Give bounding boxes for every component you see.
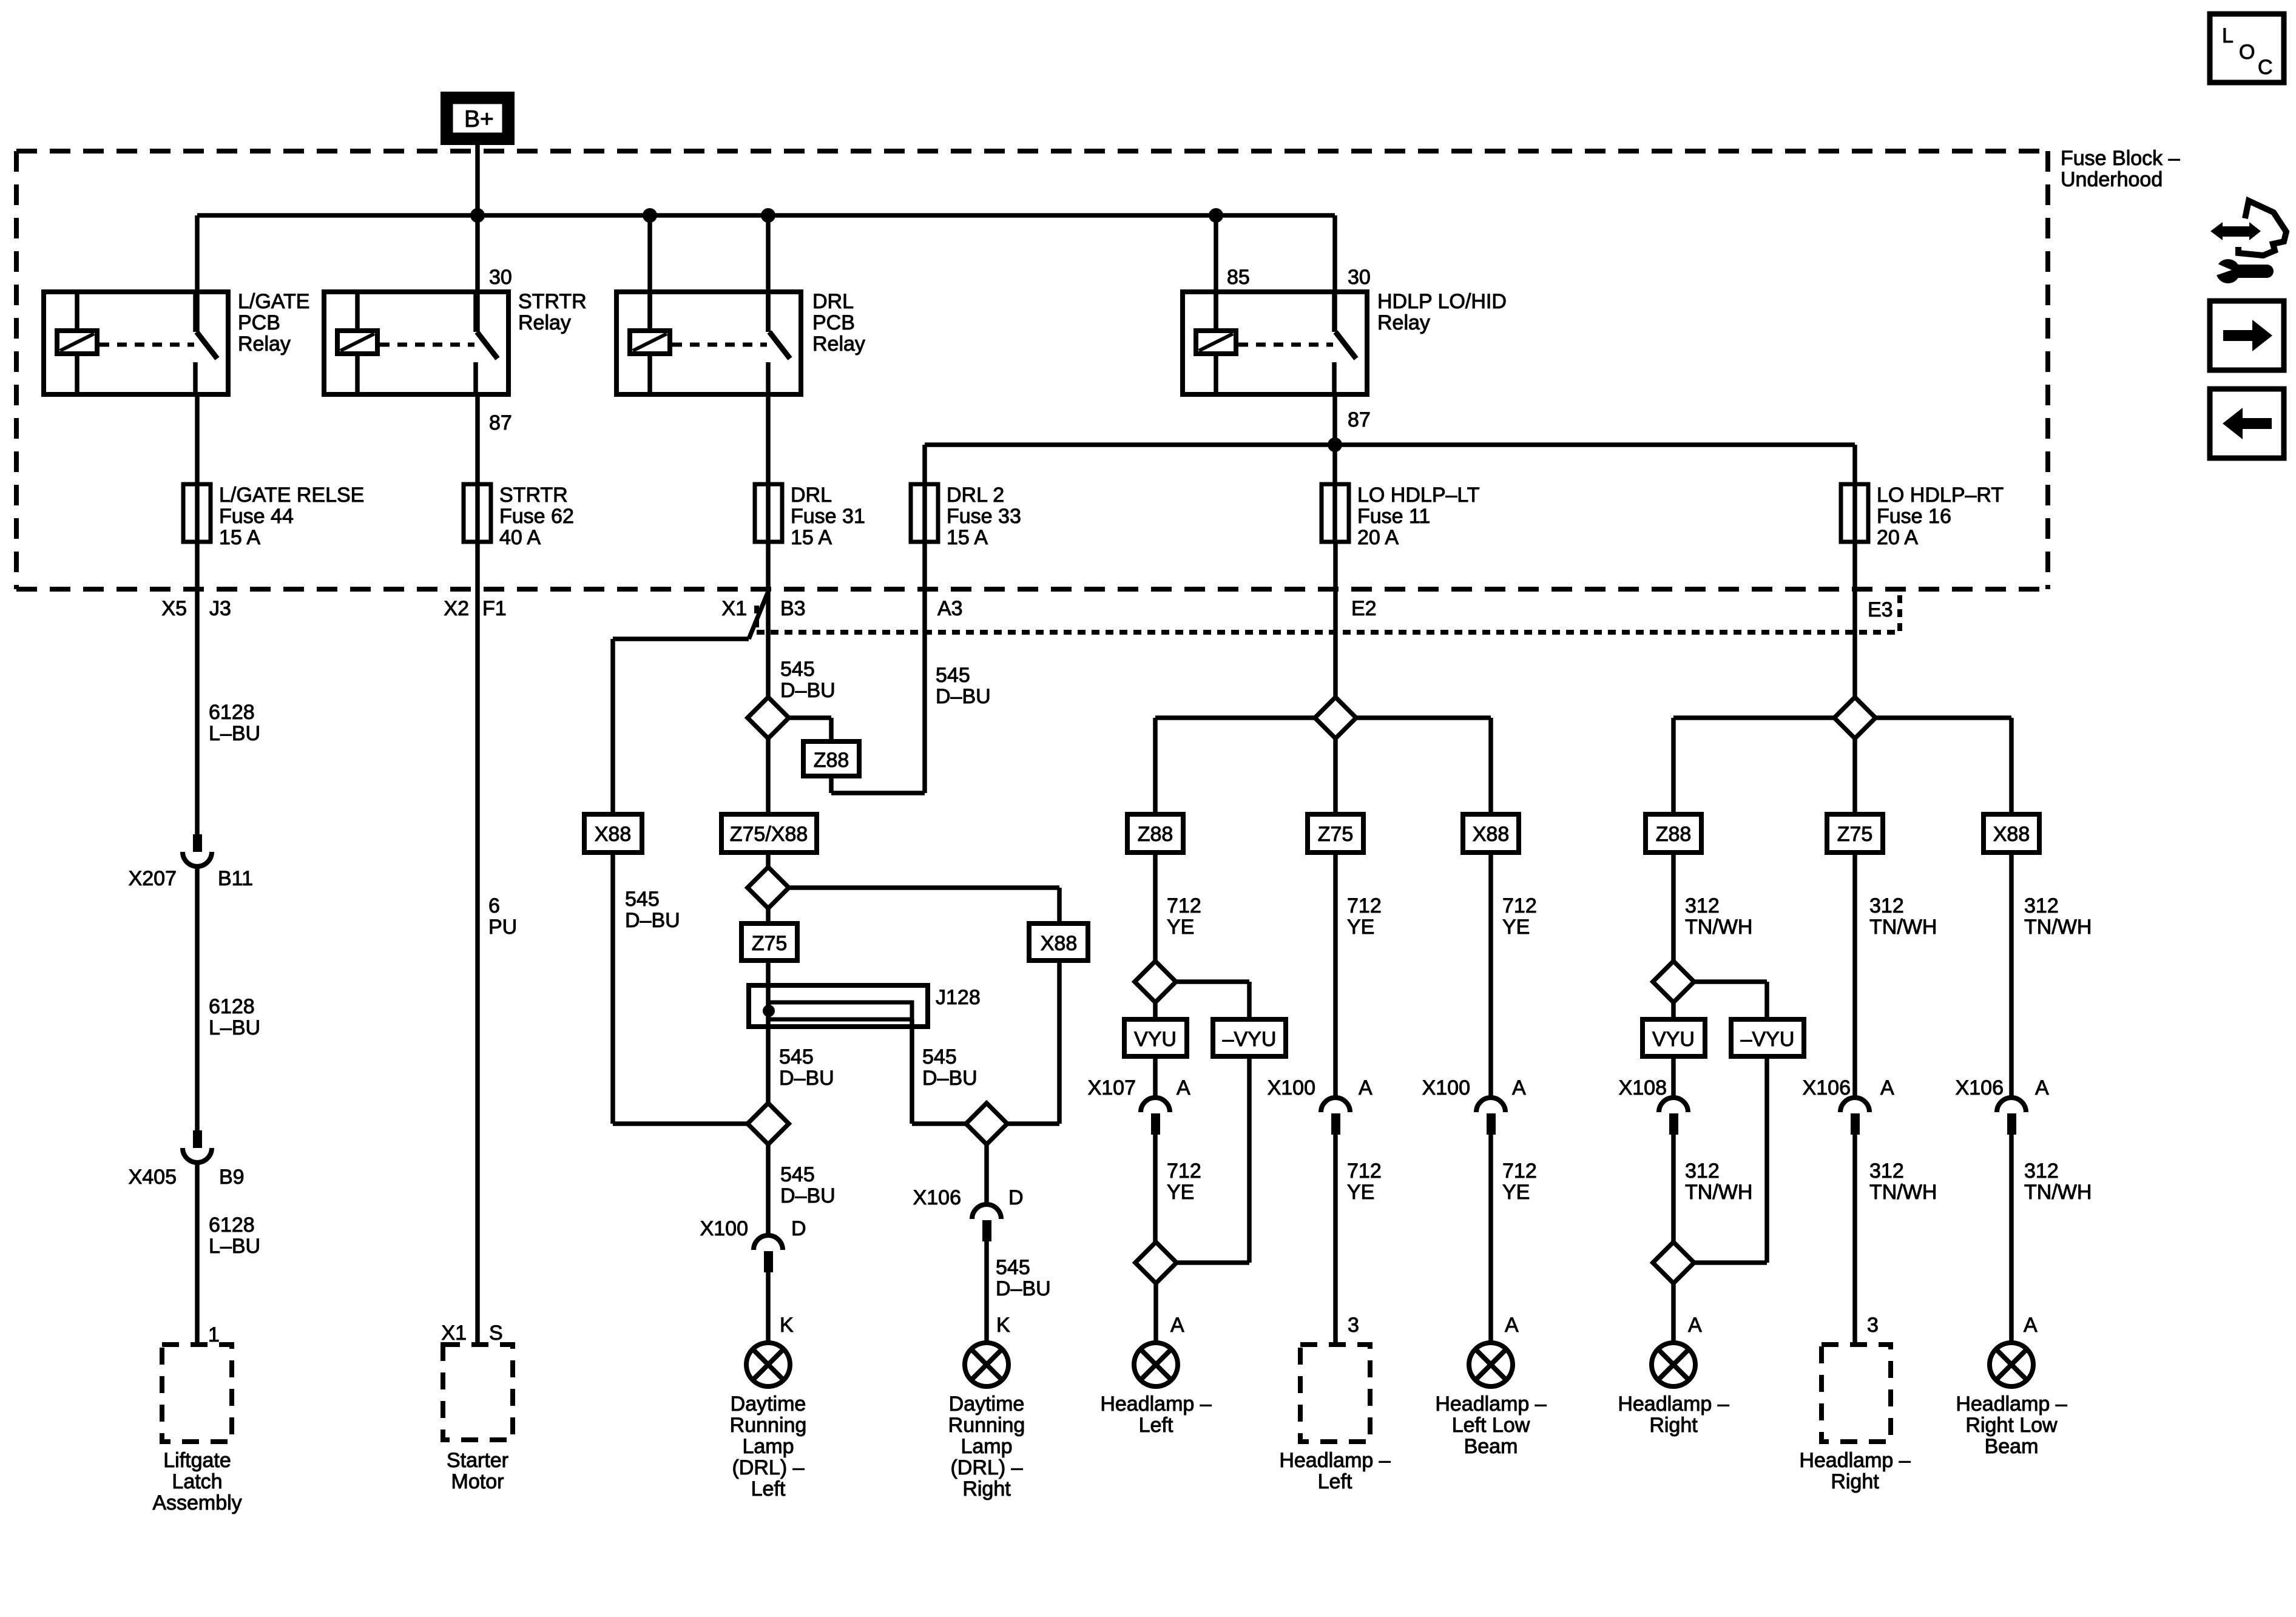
svg-text:X106: X106: [913, 1186, 961, 1209]
wire J128 bar to right DRL leg: [912, 1019, 966, 1124]
svg-text:Assembly: Assembly: [152, 1491, 241, 1514]
relay DRL PCB Relay: [616, 292, 801, 394]
wire diamond E2 to Z88 leg: [1155, 718, 1315, 814]
connector label E3: [1868, 598, 1893, 621]
node splice diamond B3: [748, 697, 789, 738]
svg-text:Headlamp –: Headlamp –: [1799, 1449, 1910, 1472]
wire label 6 PU: [488, 894, 517, 939]
wire diamond2 to Z75: [766, 908, 771, 923]
node splice diamond VYU (E3): [1653, 961, 1694, 1002]
wire label 545 D-BU (right of J128): [922, 1045, 977, 1090]
wire label 712 YE (Z75): [1347, 894, 1382, 939]
svg-text:X107: X107: [1088, 1076, 1136, 1099]
node splice diamond DRL-right: [966, 1103, 1007, 1144]
svg-text:X106: X106: [1803, 1076, 1851, 1099]
svg-text:–VYU: –VYU: [1741, 1028, 1795, 1051]
connector label X1 S starter: [441, 1322, 502, 1345]
wire diamond to VYU (E2): [1153, 1002, 1158, 1019]
wire VYU to X108: [1671, 1056, 1676, 1098]
svg-text:X207: X207: [129, 867, 177, 890]
svg-text:VYU: VYU: [1134, 1028, 1177, 1051]
svg-text:TN/WH: TN/WH: [1685, 1181, 1752, 1204]
wire diamond E3 to Z88 leg: [1673, 718, 1834, 814]
svg-text:X100: X100: [700, 1217, 748, 1240]
svg-text:Relay: Relay: [518, 311, 571, 334]
svg-text:1: 1: [208, 1323, 220, 1346]
wire diamond2 to X88 right leg: [789, 888, 1059, 923]
wire -VYU to headlamp diamond (E3): [1694, 1056, 1767, 1263]
svg-text:Z88: Z88: [1656, 823, 1692, 846]
fuse Fuse 16 20 A: [1841, 484, 1868, 542]
icon hand/component-view with arrow and wrench: [2210, 201, 2286, 283]
svg-text:B11: B11: [218, 867, 253, 890]
svg-text:Underhood: Underhood: [2061, 168, 2163, 191]
splice Z88 (E2): [1127, 814, 1183, 852]
label HDLP LO/HID Relay: [1377, 290, 1507, 334]
wire label 6128 L-BU (2): [209, 995, 260, 1039]
wire diamond4 to X88 right leg: [1007, 960, 1059, 1124]
node junction on bus at HDLP coil 85: [1209, 208, 1223, 223]
splice Z88 (E3): [1646, 814, 1701, 852]
svg-text:E3: E3: [1868, 598, 1893, 621]
svg-text:312: 312: [2024, 894, 2059, 917]
node splice diamond DRL-left: [748, 1103, 789, 1144]
component Starter Motor (dashed): [443, 1345, 513, 1440]
splice VYU (E3): [1643, 1019, 1705, 1056]
svg-text:J128: J128: [936, 986, 981, 1009]
fuse Fuse 31 15 A: [755, 484, 782, 542]
svg-text:Daytime: Daytime: [949, 1393, 1025, 1416]
svg-text:545: 545: [780, 658, 815, 681]
svg-text:C: C: [2258, 56, 2273, 79]
svg-text:B9: B9: [219, 1166, 245, 1189]
svg-text:Fuse 44: Fuse 44: [219, 505, 294, 528]
svg-text:Z88: Z88: [814, 749, 849, 772]
svg-text:Relay: Relay: [238, 333, 291, 356]
svg-text:D–BU: D–BU: [922, 1067, 977, 1090]
pin A headlamp left: [1170, 1314, 1184, 1337]
wire label 545 D-BU (B3): [780, 658, 836, 702]
fuse Fuse 33 15 A: [911, 484, 938, 542]
label Headlamp - Right: [1618, 1393, 1729, 1437]
svg-text:Fuse 31: Fuse 31: [791, 505, 865, 528]
splice X88 (E2): [1463, 814, 1519, 852]
svg-text:X100: X100: [1268, 1076, 1315, 1099]
connector X106 A (X88 E3): [1997, 1098, 2026, 1343]
label X106 D: [913, 1186, 1024, 1209]
lamp Headlamp Left Low Beam: [1469, 1343, 1513, 1386]
svg-text:Right Low: Right Low: [1965, 1414, 2058, 1437]
svg-text:(DRL) –: (DRL) –: [950, 1456, 1022, 1479]
lamp Daytime Running Lamp DRL Left: [746, 1343, 790, 1386]
svg-text:Lamp: Lamp: [961, 1435, 1012, 1458]
svg-text:STRTR: STRTR: [499, 484, 568, 507]
svg-text:B3: B3: [780, 597, 806, 620]
label Fuse Block - Underhood: [2061, 147, 2180, 191]
label Headlamp - Left (module): [1279, 1449, 1390, 1493]
icon back arrow box: [2210, 389, 2284, 458]
wire diamond to -VYU (E2): [1176, 982, 1249, 1019]
svg-text:YE: YE: [1347, 916, 1374, 939]
svg-text:Right: Right: [1831, 1470, 1879, 1493]
svg-text:X1: X1: [721, 597, 747, 620]
splice -VYU (E3): [1731, 1019, 1804, 1056]
wire diamond E3 to Z75: [1852, 738, 1857, 814]
svg-text:PCB: PCB: [812, 311, 855, 334]
svg-text:Headlamp –: Headlamp –: [1100, 1393, 1211, 1416]
svg-text:X2: X2: [444, 597, 469, 620]
svg-text:L: L: [2222, 24, 2234, 47]
svg-text:PU: PU: [488, 916, 517, 939]
svg-text:L/GATE: L/GATE: [238, 290, 309, 313]
svg-text:X108: X108: [1619, 1076, 1667, 1099]
wire Fuse 62 down to starter motor: [475, 542, 480, 1345]
svg-text:A: A: [1505, 1314, 1519, 1337]
splice Z75 (DRL): [741, 923, 797, 960]
svg-text:DRL: DRL: [791, 484, 832, 507]
connector X1 dotted boundary: [757, 595, 1900, 632]
wire diamond E2 to Z75: [1333, 738, 1338, 814]
svg-text:D–BU: D–BU: [779, 1067, 834, 1090]
pin A headlamp right low beam: [2024, 1314, 2038, 1337]
label X100 A (Z75 E2): [1268, 1076, 1373, 1099]
label X100 A (X88 E2): [1422, 1076, 1526, 1099]
label Fuse 16: [1877, 484, 2004, 549]
svg-text:K: K: [780, 1314, 794, 1337]
wire DRL relay 87 to Fuse 31: [766, 394, 771, 542]
svg-text:E2: E2: [1351, 597, 1377, 620]
connector X106 D: [972, 1204, 1001, 1343]
svg-text:545: 545: [996, 1256, 1030, 1279]
svg-text:LO HDLP–LT: LO HDLP–LT: [1357, 484, 1480, 507]
svg-text:312: 312: [2024, 1160, 2059, 1183]
svg-text:L/GATE RELSE: L/GATE RELSE: [219, 484, 364, 507]
svg-text:A: A: [1170, 1314, 1184, 1337]
wire Z88 (E3) to VYU diamond: [1671, 852, 1676, 960]
fuse block - underhood dashed boundary box: [16, 151, 2048, 589]
relay HDLP LO/HID Relay: [1183, 292, 1367, 394]
svg-text:X88: X88: [1041, 932, 1078, 955]
svg-text:L–BU: L–BU: [209, 1235, 260, 1258]
component Headlamp Left (dashed): [1300, 1345, 1370, 1442]
wire diamond to VYU (E3): [1671, 1002, 1676, 1019]
connector X107 A: [1141, 1098, 1170, 1242]
svg-text:X88: X88: [1473, 823, 1510, 846]
component Liftgate Latch Assembly (dashed): [162, 1345, 232, 1442]
svg-text:Left: Left: [751, 1477, 786, 1501]
pin 30 HDLP: [1348, 266, 1371, 289]
wire label 312 TN/WH (Z75): [1869, 894, 1937, 939]
label L/GATE PCB Relay: [238, 290, 309, 356]
wire label 712 YE (X88): [1502, 894, 1537, 939]
wire branch to X88 splice: [613, 639, 749, 814]
wire label 312 TN/WH (lower X88): [2024, 1160, 2092, 1204]
svg-text:Relay: Relay: [1377, 311, 1430, 334]
svg-text:–VYU: –VYU: [1223, 1028, 1277, 1051]
svg-text:Liftgate: Liftgate: [163, 1449, 231, 1472]
svg-text:Z75: Z75: [752, 932, 788, 955]
fuse Fuse 11 20 A: [1322, 484, 1349, 542]
wire label 545 D-BU (A3): [936, 664, 991, 708]
svg-text:X100: X100: [1422, 1076, 1470, 1099]
wire HDLP relay 87 to low-beam bus: [1332, 394, 1337, 542]
pin 85 HDLP: [1227, 266, 1250, 289]
svg-text:TN/WH: TN/WH: [1685, 916, 1752, 939]
label J128: [936, 986, 981, 1009]
pin A headlamp left low beam: [1505, 1314, 1519, 1337]
svg-text:Left: Left: [1318, 1470, 1352, 1493]
svg-text:Running: Running: [730, 1414, 807, 1437]
wire bus to HDLP relay switch 30: [1332, 215, 1337, 332]
svg-text:85: 85: [1227, 266, 1250, 289]
svg-text:Fuse 62: Fuse 62: [499, 505, 574, 528]
svg-text:X88: X88: [595, 823, 632, 846]
relay STRTR Relay: [324, 292, 508, 394]
splice X88 (DRL left): [584, 814, 642, 852]
node junction on bus at DRL coil: [643, 208, 657, 223]
svg-text:Z75: Z75: [1837, 823, 1873, 846]
wire diamond E2 to X88 leg: [1356, 718, 1491, 814]
label X207 B11: [129, 867, 253, 890]
splice Z75/X88 (DRL): [721, 814, 817, 852]
svg-text:712: 712: [1347, 894, 1382, 917]
wire L/GATE relay 87 to Fuse 44: [195, 394, 200, 542]
svg-text:X5: X5: [161, 597, 187, 620]
svg-text:TN/WH: TN/WH: [1869, 1181, 1937, 1204]
svg-text:Right: Right: [1649, 1414, 1698, 1437]
svg-text:Headlamp –: Headlamp –: [1618, 1393, 1729, 1416]
svg-text:712: 712: [1167, 894, 1201, 917]
svg-text:B+: B+: [464, 106, 494, 132]
svg-text:D–BU: D–BU: [780, 679, 836, 702]
svg-text:545: 545: [780, 1163, 815, 1186]
pin 30 STRTR: [489, 266, 512, 289]
svg-text:Latch: Latch: [172, 1470, 222, 1493]
wire Z75 through J128 to diamond: [766, 960, 771, 1103]
wire X88 left leg to diamond 3: [613, 852, 748, 1124]
svg-text:YE: YE: [1502, 916, 1530, 939]
splice Z75 (E2): [1308, 814, 1363, 852]
icon forward arrow box: [2210, 301, 2284, 370]
pin 1 liftgate latch: [208, 1323, 220, 1346]
wire diamond B3 to Z75/X88: [766, 738, 771, 814]
wire Z75/X88 to diamond 2: [766, 852, 771, 867]
label Starter Motor: [447, 1449, 508, 1493]
wire label 312 TN/WH (X108): [1685, 1160, 1752, 1204]
svg-text:Starter: Starter: [447, 1449, 508, 1472]
wire diamond E3 to X88 leg: [1876, 718, 2011, 814]
wire STRTR relay 87 to Fuse 62: [475, 394, 480, 542]
connector X108: [1659, 1098, 1688, 1242]
svg-text:6128: 6128: [209, 701, 255, 724]
svg-text:A: A: [1688, 1314, 1702, 1337]
svg-text:A: A: [1177, 1076, 1190, 1099]
svg-text:YE: YE: [1167, 1181, 1194, 1204]
wire bus to HDLP relay coil 85: [1214, 215, 1218, 331]
connector label E2: [1351, 597, 1377, 620]
wire bus down to Fuse 16: [1852, 445, 1857, 542]
svg-text:O: O: [2239, 41, 2255, 64]
label Fuse 33: [947, 484, 1021, 549]
wire bus to DRL relay coil: [647, 215, 652, 331]
pin 87 HDLP: [1348, 408, 1371, 431]
svg-text:Motor: Motor: [451, 1470, 504, 1493]
pin A headlamp right: [1688, 1314, 1702, 1337]
svg-text:Beam: Beam: [1464, 1435, 1518, 1458]
label DRL PCB Relay: [812, 290, 865, 356]
wire Z88 to A3 fuse leg: [831, 542, 925, 793]
wire diamond4 down to X106: [984, 1144, 989, 1204]
svg-text:J3: J3: [209, 597, 231, 620]
svg-text:87: 87: [489, 411, 512, 434]
svg-text:6128: 6128: [209, 1214, 255, 1237]
svg-text:Fuse 16: Fuse 16: [1877, 505, 1951, 528]
svg-text:YE: YE: [1167, 916, 1194, 939]
wire label 545 D-BU (left DRL): [780, 1163, 836, 1207]
label Headlamp - Left: [1100, 1393, 1211, 1437]
wire label 712 YE (lower X88): [1502, 1160, 1537, 1204]
svg-text:312: 312: [1869, 1160, 1904, 1183]
svg-text:LO HDLP–RT: LO HDLP–RT: [1877, 484, 2004, 507]
wire Fuse 31 to splice diamond: [766, 542, 771, 697]
splice X88 (DRL right): [1029, 923, 1088, 960]
svg-text:Daytime: Daytime: [731, 1393, 806, 1416]
svg-text:712: 712: [1502, 894, 1537, 917]
svg-text:3: 3: [1867, 1314, 1879, 1337]
svg-text:A: A: [2035, 1076, 2049, 1099]
pin 3 headlamp left: [1348, 1314, 1359, 1337]
wire bus B+ horizontal: [197, 213, 1335, 218]
svg-text:545: 545: [922, 1045, 957, 1068]
node junction on bus at STRTR: [470, 208, 485, 223]
svg-text:Headlamp –: Headlamp –: [1435, 1393, 1546, 1416]
svg-text:20 A: 20 A: [1357, 526, 1399, 549]
wire Fuse 11 to diamond E2: [1333, 542, 1338, 697]
svg-text:Fuse Block –: Fuse Block –: [2061, 147, 2180, 170]
node splice diamond headlamp right: [1653, 1242, 1694, 1283]
power symbol B+ (battery feed): [443, 94, 512, 143]
svg-text:6: 6: [488, 894, 500, 917]
lamp Headlamp Left: [1134, 1343, 1178, 1386]
svg-text:712: 712: [1167, 1160, 1201, 1183]
wire label 312 TN/WH (X88): [2024, 894, 2092, 939]
label STRTR Relay: [518, 290, 587, 334]
label X100 D: [700, 1217, 806, 1240]
node splice diamond VYU (E2): [1135, 961, 1176, 1002]
node junction 87 bus: [1328, 437, 1342, 452]
wire Z88 to VYU diamond: [1153, 852, 1158, 960]
svg-text:D–BU: D–BU: [996, 1277, 1051, 1300]
wire bus to DRL relay switch: [766, 215, 771, 332]
svg-text:YE: YE: [1502, 1181, 1530, 1204]
svg-text:D: D: [1008, 1186, 1024, 1209]
svg-text:312: 312: [1685, 894, 1720, 917]
svg-text:D: D: [791, 1217, 806, 1240]
svg-text:312: 312: [1869, 894, 1904, 917]
pin K DRL right: [996, 1314, 1010, 1337]
lamp Headlamp Right Low Beam: [1990, 1343, 2033, 1386]
svg-text:Running: Running: [948, 1414, 1025, 1437]
svg-text:A: A: [1359, 1076, 1373, 1099]
svg-text:TN/WH: TN/WH: [1869, 916, 1937, 939]
splice Z88 (DRL): [803, 741, 859, 776]
connector X207 B11: [183, 834, 212, 1130]
svg-text:Z88: Z88: [1138, 823, 1173, 846]
svg-text:A3: A3: [937, 597, 963, 620]
wire diamond to -VYU (E3): [1694, 982, 1767, 1019]
pin 3 headlamp right: [1867, 1314, 1879, 1337]
svg-text:Lamp: Lamp: [742, 1435, 794, 1458]
wire label 6128 L-BU (1): [209, 701, 260, 745]
svg-text:X1: X1: [441, 1322, 467, 1345]
splice X88 (E3): [1984, 814, 2039, 852]
lamp Headlamp Right: [1652, 1343, 1695, 1386]
svg-text:Relay: Relay: [812, 333, 865, 356]
label Fuse 62: [499, 484, 574, 549]
svg-text:VYU: VYU: [1652, 1028, 1695, 1051]
icon LOC reference box: [2210, 14, 2284, 83]
lamp Daytime Running Lamp DRL Right: [965, 1343, 1008, 1386]
connector X100 A (Z75 E2): [1321, 1098, 1350, 1345]
relay L/GATE PCB Relay: [44, 292, 228, 394]
svg-text:YE: YE: [1347, 1181, 1374, 1204]
connector label X1 B3: [721, 597, 805, 620]
svg-text:DRL 2: DRL 2: [947, 484, 1004, 507]
label X106 A (Z75 E3): [1803, 1076, 1894, 1099]
svg-text:L–BU: L–BU: [209, 1016, 260, 1039]
wire label 312 TN/WH (Z88): [1685, 894, 1752, 939]
svg-text:87: 87: [1348, 408, 1371, 431]
svg-text:X405: X405: [129, 1166, 177, 1189]
node splice diamond E2: [1315, 697, 1356, 738]
svg-text:Right: Right: [962, 1477, 1011, 1501]
component Headlamp Right (dashed): [1822, 1345, 1891, 1442]
svg-text:Z75/X88: Z75/X88: [730, 823, 808, 846]
wire label 712 YE (lower Z75): [1347, 1160, 1382, 1204]
node splice diamond headlamp left: [1135, 1242, 1177, 1283]
svg-text:F1: F1: [482, 597, 507, 620]
fuse Fuse 44 15 A: [183, 484, 211, 542]
label Headlamp - Right Low Beam: [1956, 1393, 2067, 1458]
svg-text:Z75: Z75: [1318, 823, 1354, 846]
junction block J128: [749, 985, 928, 1027]
wire Fuse 44 to connector X5: [195, 542, 200, 834]
connector label A3: [937, 597, 963, 620]
node splice diamond B3 lower: [748, 867, 789, 908]
node junction on bus at DRL switch: [761, 208, 775, 223]
svg-text:PCB: PCB: [238, 311, 280, 334]
svg-text:TN/WH: TN/WH: [2024, 916, 2092, 939]
svg-text:D–BU: D–BU: [780, 1184, 836, 1207]
svg-text:312: 312: [1685, 1160, 1720, 1183]
svg-text:HDLP LO/HID: HDLP LO/HID: [1377, 290, 1507, 313]
svg-text:30: 30: [1348, 266, 1371, 289]
svg-text:S: S: [489, 1322, 503, 1345]
wire label 545 D-BU (left of J128): [779, 1045, 834, 1090]
label X106 A (X88 E3): [1956, 1076, 2049, 1099]
svg-text:Headlamp –: Headlamp –: [1956, 1393, 2067, 1416]
pin 87 STRTR: [489, 411, 512, 434]
svg-text:L–BU: L–BU: [209, 722, 260, 745]
wire VYU to X107: [1153, 1056, 1158, 1098]
wire Z75 (E2) to X100: [1333, 852, 1338, 1098]
connector label X2 F1: [444, 597, 506, 620]
connector label X5 J3: [161, 597, 231, 620]
svg-text:6128: 6128: [209, 995, 255, 1018]
wire low-beam feed bus 87: [925, 442, 1855, 447]
connector X106 A (Z75 E3): [1840, 1098, 1869, 1345]
svg-text:Left Low: Left Low: [1452, 1414, 1530, 1437]
